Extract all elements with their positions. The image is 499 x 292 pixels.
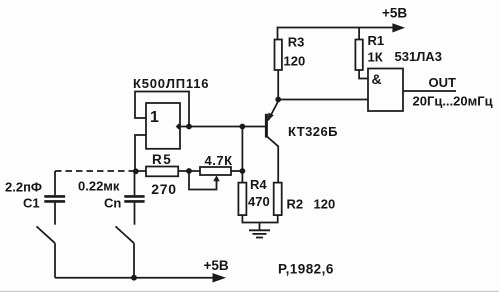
scan edge bottom (0, 290, 499, 292)
wire ground stem (259, 223, 261, 231)
node S2/bottom rail (131, 275, 137, 281)
wire S2 to bottom rail (133, 243, 135, 278)
op-amp U2 NAND gate 531ЛА3 (368, 69, 403, 112)
node IC output/feedback (186, 124, 192, 130)
wire base node down to pot node (241, 127, 243, 172)
wire bottom +5V rail (55, 277, 214, 279)
svg-text:0.22мк: 0.22мк (78, 178, 120, 193)
resistor R1 (355, 40, 362, 71)
potentiometer 4.7K body (200, 167, 231, 175)
capacitor Cn top lead (134, 171, 136, 195)
transistor Q1 emitter arrow (PNP) (268, 113, 274, 121)
node emitter/R3/gate (275, 97, 281, 103)
wire R1 bottom lead to gate input (359, 70, 368, 79)
svg-text:120: 120 (314, 196, 336, 211)
wire wiper to left terminal (189, 172, 217, 190)
wire feedback loop (135, 92, 189, 127)
IC D1 К500ЛП116 (146, 103, 180, 149)
svg-text:R2: R2 (287, 196, 304, 211)
resistor R4 (238, 183, 246, 216)
switch S1 blade (37, 226, 56, 243)
wire R4 top lead (241, 171, 243, 183)
svg-text:470: 470 (248, 194, 270, 209)
node Cn/stub/R5 (133, 168, 139, 174)
svg-text:531ЛА3: 531ЛА3 (395, 49, 442, 64)
capacitor C1 (44, 196, 65, 201)
power arrow +5V bottom (213, 273, 227, 282)
power arrow +5V top (392, 23, 405, 32)
svg-text:&: & (372, 71, 382, 87)
resistor R5 (146, 167, 178, 177)
svg-text:OUT: OUT (429, 75, 457, 90)
svg-text:Р,1982,6: Р,1982,6 (278, 261, 334, 276)
switch S2 blade (116, 226, 135, 243)
wire base from IC output (180, 126, 265, 128)
wire R4/R2 bottoms to ground (242, 215, 277, 222)
wire pot to R4 node (231, 170, 242, 172)
svg-text:К500ЛП116: К500ЛП116 (133, 76, 209, 91)
svg-text:270: 270 (151, 181, 176, 197)
wire node to R5 (136, 170, 146, 172)
capacitor Cn (124, 196, 144, 201)
wire gate output (403, 90, 456, 92)
capacitor C1 top lead (54, 171, 56, 195)
node pot/R4 (240, 168, 246, 174)
svg-text:C1: C1 (23, 195, 40, 210)
wire IC lower input stub (135, 135, 146, 171)
transistor Q1 collector (266, 136, 278, 183)
svg-text:R1: R1 (368, 33, 385, 48)
capacitor C1 bottom lead (54, 203, 56, 225)
svg-text:2.2пФ: 2.2пФ (5, 179, 42, 194)
resistor R2 (274, 183, 282, 216)
svg-text:4.7К: 4.7К (205, 153, 233, 168)
svg-text:1: 1 (150, 109, 159, 126)
wire top +5V rail (278, 28, 395, 41)
wire R5 to pot (178, 170, 200, 172)
svg-text:120: 120 (284, 53, 306, 68)
svg-text:+5В: +5В (382, 6, 407, 21)
svg-text:R5: R5 (152, 152, 172, 167)
transistor Q1 КТ326Б emitter (268, 100, 279, 120)
resistor R3 (275, 40, 282, 71)
ground (249, 230, 270, 237)
svg-text:R4: R4 (250, 177, 267, 192)
node R5/pot/wiper (186, 168, 192, 174)
potentiometer wiper arrow (213, 175, 219, 181)
wire R3 bottom lead (277, 70, 279, 100)
node base/R4 branch (240, 124, 246, 130)
wire R1 top lead (358, 28, 360, 40)
svg-text:Cn: Cn (104, 195, 121, 210)
wire mid rail R3 to gate input (278, 99, 368, 101)
svg-text:КТ326Б: КТ326Б (288, 124, 338, 139)
wire S1 to bottom rail (54, 243, 56, 278)
svg-text:+5В: +5В (204, 258, 229, 273)
wire dashed C1/Cn link (55, 170, 136, 172)
capacitor Cn bottom lead (134, 203, 136, 225)
svg-text:1К: 1К (368, 50, 383, 65)
IC output diamond marker (176, 124, 182, 130)
svg-text:20Гц...20мГц: 20Гц...20мГц (413, 93, 493, 108)
transistor Q1 base bar (265, 114, 268, 138)
svg-text:R3: R3 (288, 35, 305, 50)
